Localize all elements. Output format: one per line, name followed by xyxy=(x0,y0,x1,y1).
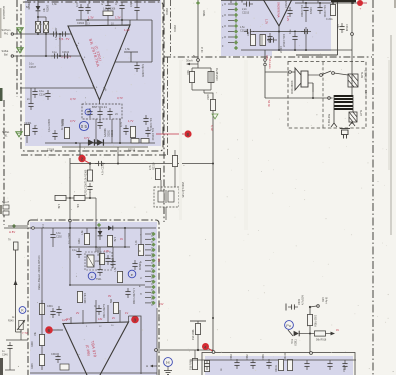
wire short drop x118 xyxy=(117,147,119,164)
svg-text:3,7V: 3,7V xyxy=(117,96,123,100)
wire pre-triangle rail y318 xyxy=(49,329,63,331)
block B junction dots rail xyxy=(319,2,321,4)
label 30mA line xyxy=(190,63,198,65)
capacitor C292 xyxy=(50,231,55,241)
svg-text:1,5k: 1,5k xyxy=(125,48,130,51)
red test point 3 xyxy=(131,316,139,324)
resistor R2320 xyxy=(330,5,335,16)
antenna stub T xyxy=(124,51,138,53)
connector arrow Si-Bal xyxy=(17,48,23,53)
svg-text:100: 100 xyxy=(247,31,250,36)
wire C2321 stub xyxy=(294,43,296,50)
filter coil core line xyxy=(165,190,167,203)
junction sub-apex b xyxy=(294,31,296,33)
capacitor C2341 xyxy=(143,115,148,125)
resistor R381 xyxy=(84,234,89,245)
wire blockC x53 low drop xyxy=(52,241,54,247)
junction dot speaker bus xyxy=(312,97,314,99)
resistor R918 xyxy=(315,331,326,336)
wire diamond feed into block C xyxy=(8,225,28,227)
svg-text:Si-Ant: Si-Ant xyxy=(325,297,328,304)
coil L941 cross xyxy=(87,255,94,267)
svg-text:1,3V: 1,3V xyxy=(88,16,94,20)
svg-text:4,7u/15V: 4,7u/15V xyxy=(302,295,305,305)
connector arrow Si-Bal B xyxy=(16,132,22,137)
junction dot rail C c xyxy=(124,227,126,229)
diode D382 horizontal xyxy=(108,226,113,231)
scan mark left edge dark blob xyxy=(0,88,3,101)
wire transistor to R918 xyxy=(300,333,315,335)
blue adjust point Pu xyxy=(285,321,294,330)
green pin node 9 xyxy=(234,46,238,50)
block C wire x113 xyxy=(112,247,114,258)
svg-text:0,1u: 0,1u xyxy=(114,0,118,5)
green pin node 6 xyxy=(234,29,238,33)
wire left branch vertical xyxy=(69,158,71,219)
wire H arrow stub xyxy=(153,365,157,367)
capacitor C2305 right xyxy=(134,62,139,72)
svg-text:C2317: C2317 xyxy=(279,46,282,54)
block C extra cap 2 xyxy=(110,258,115,268)
svg-text:R394: R394 xyxy=(31,363,34,369)
potentiometer arrowhead xyxy=(23,320,25,323)
transistor lead bar left xyxy=(288,330,293,336)
wire to transformer horizontal xyxy=(265,97,333,99)
regulator box left xyxy=(14,242,19,250)
svg-text:P. 30: P. 30 xyxy=(200,47,203,53)
junction C2321 xyxy=(294,49,296,51)
headphone jack symbol xyxy=(340,129,350,139)
wire sub-apex horizontal xyxy=(253,31,308,33)
wire H to block D xyxy=(167,366,169,370)
junction diode chain xyxy=(37,16,39,18)
svg-text:H: H xyxy=(166,360,169,365)
svg-text:0,1u C2309: 0,1u C2309 xyxy=(48,118,51,132)
svg-text:R2313: R2313 xyxy=(128,149,136,152)
svg-text:29301: 29301 xyxy=(165,8,168,15)
capacitor C2343 xyxy=(51,53,61,58)
wire cap stub 2 xyxy=(107,12,109,20)
svg-text:3,7V: 3,7V xyxy=(70,97,76,101)
internal dashed divider output box xyxy=(322,62,324,129)
triangle1 left edge pin tick 1 xyxy=(74,42,78,47)
block C wire x100 xyxy=(99,247,101,266)
wire y350 horizontal xyxy=(158,349,214,351)
IC block A shaded area xyxy=(25,0,161,146)
top edge stub 1 xyxy=(230,0,232,3)
svg-text:71820: 71820 xyxy=(294,339,297,346)
wire bottom rail block C xyxy=(30,372,157,374)
resistor R2312 xyxy=(172,156,177,167)
svg-text:R9102: R9102 xyxy=(284,352,287,360)
connector pin column dashed line xyxy=(235,1,237,49)
capacitor C346 bottom left xyxy=(7,342,12,352)
svg-text:H: H xyxy=(146,364,148,368)
wire BNT box to rail left xyxy=(95,119,97,143)
block C junction dots xyxy=(95,246,97,248)
svg-text:1k R384: 1k R384 xyxy=(97,246,100,256)
wire drop x76 to mesh xyxy=(69,228,71,285)
capacitor C2314b right xyxy=(301,29,311,34)
svg-text:BU26: BU26 xyxy=(360,72,363,79)
wire filter bottom drop xyxy=(165,207,167,220)
wire corner to pot xyxy=(16,329,22,332)
wire R986 bottom xyxy=(197,335,199,351)
ground feet transformer left xyxy=(331,123,337,127)
svg-text:TCA: TCA xyxy=(290,339,293,344)
svg-text:R2308: R2308 xyxy=(62,118,65,126)
blue adjust point 05 xyxy=(79,121,88,130)
svg-text:1,9V: 1,9V xyxy=(104,250,109,253)
capacitor C394 low xyxy=(55,353,60,363)
wire R918 to arrow xyxy=(326,333,333,335)
wire drop x96 xyxy=(95,228,97,252)
svg-text:1901: 1901 xyxy=(187,69,190,75)
wire speaker lower to bus xyxy=(312,83,314,98)
svg-text:0,1u: 0,1u xyxy=(29,63,34,66)
output section dashed box xyxy=(288,62,366,129)
svg-text:+U: +U xyxy=(357,2,360,5)
wire pot to block C xyxy=(20,330,22,340)
resistor R2316 xyxy=(250,35,255,46)
scan stripe faint 2 xyxy=(244,60,248,230)
junction dots on rail xyxy=(87,19,89,21)
svg-text:0,1u: 0,1u xyxy=(52,51,57,54)
svg-text:1,2V: 1,2V xyxy=(286,16,289,21)
scan edge line far right 2 xyxy=(388,60,390,170)
svg-text:1,5k: 1,5k xyxy=(113,237,116,242)
wire right caps rail xyxy=(295,2,357,4)
wire speaker lower terminal xyxy=(308,82,313,84)
wire block B lower rail xyxy=(241,49,352,51)
capacitor C2316 xyxy=(267,33,272,43)
green diamond on feed top xyxy=(196,1,200,5)
wire speaker lower drop xyxy=(312,83,314,92)
node circle block D top xyxy=(310,352,313,355)
potentiometer R340 xyxy=(19,320,23,329)
svg-text:C2319: C2319 xyxy=(345,24,348,32)
resistor R2311 xyxy=(130,127,135,138)
svg-text:+: + xyxy=(360,7,362,11)
capacitor C919 end bar xyxy=(285,304,287,311)
junction sub-apex xyxy=(278,31,280,33)
junction main wire into D xyxy=(212,351,215,354)
svg-text:C2301: C2301 xyxy=(24,122,32,125)
svg-text:21V: 21V xyxy=(159,303,164,306)
green diamond node left xyxy=(12,224,16,228)
junction dot rail b xyxy=(95,142,97,144)
arrow terminal right xyxy=(331,332,336,336)
resistor R919 feed xyxy=(189,72,194,83)
left margin dash-dot border upper xyxy=(16,0,18,97)
wire left margin vertical xyxy=(15,248,17,332)
capacitor C2317 on apex wire xyxy=(267,37,277,42)
svg-text:0,22: 0,22 xyxy=(364,90,367,95)
wire c2318 drop xyxy=(305,14,307,22)
svg-text:C394: C394 xyxy=(51,353,57,356)
capacitor C9103 xyxy=(304,360,309,370)
wire feed R919 stub b xyxy=(191,83,193,90)
top edge stub 5 xyxy=(107,0,109,3)
svg-text:5,5...7V: 5,5...7V xyxy=(59,37,69,41)
wire main vert junction dots xyxy=(212,317,214,319)
block B junction dot 3 xyxy=(352,2,354,4)
wire cap stub 4 xyxy=(136,14,138,20)
resistor R2367 with wiper xyxy=(43,22,48,33)
junction wire2 xyxy=(45,55,47,57)
capacitor C384 mid xyxy=(96,305,101,315)
wire feed join down xyxy=(203,90,205,93)
switch contact b xyxy=(332,72,335,75)
capacitor C919 xyxy=(288,304,298,309)
svg-text:3,9p C2305: 3,9p C2305 xyxy=(141,64,144,78)
svg-text:560: 560 xyxy=(110,298,113,303)
node circle feed top xyxy=(197,59,200,62)
capacitor C380 xyxy=(76,248,81,258)
wire speaker to switch xyxy=(308,74,319,76)
choke DR981 xyxy=(208,72,214,83)
red test point 2 tail xyxy=(85,161,90,164)
block C junction dot2 xyxy=(69,246,71,248)
wire right corner to x141 xyxy=(129,316,142,374)
block B junction dot 2 xyxy=(332,2,334,4)
svg-text:3,7V: 3,7V xyxy=(70,119,76,123)
wire feed split top xyxy=(192,67,211,69)
junction dot rail c xyxy=(119,142,121,144)
svg-text:7,7V: 7,7V xyxy=(22,331,28,335)
svg-text:c: c xyxy=(91,275,93,279)
svg-text:Si-Bal.: Si-Bal. xyxy=(2,130,10,134)
junction dot rail a xyxy=(75,142,77,144)
coil L2302 xyxy=(260,35,266,46)
junction caps column b xyxy=(59,55,61,57)
svg-text:918 R987: 918 R987 xyxy=(190,359,193,370)
diode D381 xyxy=(98,228,103,240)
top edge stub 6 xyxy=(136,0,138,4)
wire x96 down to block C xyxy=(95,198,97,228)
wire feed from top xyxy=(197,0,199,59)
junction dot xyxy=(121,19,123,21)
capacitor C2321 mid block B xyxy=(292,33,297,43)
label bottom gap H arrow xyxy=(150,365,153,368)
svg-text:Ph1: Ph1 xyxy=(4,33,9,36)
scan mark left edge small xyxy=(0,205,2,214)
resistor R380 xyxy=(77,292,82,303)
red test point a xyxy=(202,343,209,350)
BNT internal cap 1 xyxy=(87,108,92,118)
top edge stub 4 xyxy=(88,0,90,4)
block B solid border right xyxy=(337,2,339,55)
svg-text:29301: 29301 xyxy=(173,25,176,32)
box R395 low xyxy=(60,364,69,370)
resistor blockD extra xyxy=(278,360,283,371)
red terminal tail xyxy=(363,2,367,4)
svg-text:R381: R381 xyxy=(78,238,81,244)
triangle1 left edge pin tick 2 xyxy=(80,56,84,61)
hybrid module BNT 901 21 dashed box xyxy=(82,104,122,119)
resistor R391 left col xyxy=(39,304,44,315)
transistor TCA diode symbol xyxy=(294,331,300,337)
wire apex T2 down xyxy=(278,26,280,50)
wire BNT box to rail mid xyxy=(111,119,113,143)
svg-text:4,7n C2304: 4,7n C2304 xyxy=(75,0,79,7)
capacitor C2311 xyxy=(123,125,128,135)
node circle NF crossing 2 xyxy=(264,63,267,66)
capacitor C382 xyxy=(132,260,137,270)
resistor R916b on supply xyxy=(307,315,312,326)
capacitor C982 xyxy=(250,359,255,369)
pin tick row2 xyxy=(228,9,234,11)
block C extra cap 1 xyxy=(97,266,102,276)
svg-text:4,7u/15V C383: 4,7u/15V C383 xyxy=(132,288,135,305)
wire supply left vertical xyxy=(351,2,353,95)
svg-text:10u C2310: 10u C2310 xyxy=(151,128,154,141)
wire bottom rail 2 block A xyxy=(62,146,148,148)
wire right column down xyxy=(151,20,153,62)
wire rail to test point 2 xyxy=(79,143,81,155)
svg-text:2700 C2367: 2700 C2367 xyxy=(85,181,88,195)
ground feet transformer right xyxy=(349,122,355,126)
pin header dashed line block C xyxy=(151,232,153,306)
ground symbol under H xyxy=(164,371,172,375)
block B extra cap xyxy=(287,7,292,17)
svg-text:0 5: 0 5 xyxy=(81,124,88,129)
svg-text:12V: 12V xyxy=(157,258,159,263)
red test point 6 xyxy=(45,326,53,334)
red terminal top right xyxy=(357,0,363,6)
svg-text:1915 R916: 1915 R916 xyxy=(314,315,317,327)
svg-text:C2304: C2304 xyxy=(77,22,85,25)
wire arrow mid left xyxy=(14,280,18,285)
wire drop x53 cap xyxy=(52,228,54,231)
resistor R392 xyxy=(39,335,44,346)
svg-text:1,3k: 1,3k xyxy=(52,3,57,6)
wire bottom rail block A xyxy=(45,142,155,144)
junction dot NF x118 xyxy=(117,163,119,165)
svg-text:1u/35V C384: 1u/35V C384 xyxy=(102,304,105,319)
resistor R916 main vertical xyxy=(210,100,215,111)
vertical chassis dash-dot second line xyxy=(170,0,172,57)
svg-text:D+4B1/100: D+4B1/100 xyxy=(215,68,218,81)
svg-text:C2320: C2320 xyxy=(285,0,288,8)
capacitor C2302 xyxy=(50,31,60,36)
vertical chassis dash-dot right of block A xyxy=(163,0,165,222)
capacitor C981 xyxy=(204,360,209,370)
wire diode feed xyxy=(37,0,39,6)
capacitor C2308 on NF line xyxy=(95,161,105,166)
resistor R2302 with wiper xyxy=(35,22,40,33)
pin header ticks and nodes xyxy=(145,234,151,303)
ground bar above R986 xyxy=(190,320,206,322)
capacitor C2301 left low xyxy=(32,125,37,135)
block D inner components xyxy=(204,361,209,372)
svg-text:NF 30: NF 30 xyxy=(267,100,270,107)
node circle block C entry xyxy=(69,219,72,222)
svg-text:14V: 14V xyxy=(98,318,103,321)
top edge stub 2 xyxy=(241,0,243,3)
wire c2318 low stub xyxy=(305,27,307,50)
svg-text:R340: R340 xyxy=(8,321,14,323)
IC block B lower lobe xyxy=(221,51,272,56)
plug socket hatched lower xyxy=(349,112,357,122)
diode D2302 xyxy=(88,139,94,145)
svg-text:C381: C381 xyxy=(111,258,114,264)
svg-text:4,7n C2308: 4,7n C2308 xyxy=(102,162,105,175)
svg-text:H 8V: H 8V xyxy=(9,230,15,234)
svg-text:4,7k: 4,7k xyxy=(135,240,138,245)
switch lever xyxy=(322,71,331,75)
svg-text:m: m xyxy=(87,110,90,114)
wire chain to y198 xyxy=(89,192,91,198)
capacitor C2367 chain xyxy=(87,183,92,193)
resistor R2363 on y198 xyxy=(74,195,85,200)
wire into right edge xyxy=(115,61,152,63)
coil L2302 inner xyxy=(261,35,263,46)
wire NF to speaker xyxy=(265,71,295,73)
blue adjust point H xyxy=(164,358,173,367)
svg-text:0,5u: 0,5u xyxy=(289,29,292,34)
capacitor C2347 xyxy=(32,88,37,98)
port circle input 1 xyxy=(11,33,13,35)
coil L941 xyxy=(87,255,94,267)
resistor R2306 on rail xyxy=(103,11,113,16)
output transformer right lead xyxy=(352,95,354,112)
wire bottom left drop xyxy=(9,352,11,370)
svg-text:C2309: C2309 xyxy=(47,149,55,152)
svg-text:R2321: R2321 xyxy=(309,7,312,15)
green pin node 8 xyxy=(234,40,238,44)
wire stub left inner xyxy=(30,88,32,100)
svg-text:C982: C982 xyxy=(246,354,249,360)
svg-text:Dr981: Dr981 xyxy=(202,10,205,17)
svg-text:C2344: C2344 xyxy=(62,51,70,54)
green pin node 1 xyxy=(234,2,238,6)
pin tick right top xyxy=(121,20,123,26)
svg-text:4,7u: 4,7u xyxy=(120,122,123,127)
pin tick row1 xyxy=(228,3,234,5)
wire junction to R2365 xyxy=(89,164,91,171)
wire rail stub to margin xyxy=(4,227,32,229)
wire NF output down xyxy=(264,50,266,72)
fuse box Si left 2 xyxy=(3,211,9,215)
svg-text:10u C2318: 10u C2318 xyxy=(300,5,303,17)
wire cap stub 3 xyxy=(121,12,123,20)
green pin node 7 xyxy=(234,35,238,39)
antenna stub vertical xyxy=(130,52,132,62)
svg-text:3,9p: 3,9p xyxy=(129,1,133,7)
svg-text:Bal: Bal xyxy=(4,54,8,57)
wire NF line horizontal xyxy=(70,163,213,165)
svg-text:D2302: D2302 xyxy=(111,129,114,137)
block B solid border bottom right xyxy=(296,54,338,56)
node circle transformer input xyxy=(328,97,331,100)
op-amp IC395 triangle xyxy=(63,322,129,375)
svg-text:M: M xyxy=(139,269,141,271)
filter coil dashed box xyxy=(154,187,179,207)
wire apex down xyxy=(99,100,101,104)
resistor R987 below junction xyxy=(192,359,197,370)
wire feed split bottom xyxy=(192,89,211,91)
label 30mA arrow xyxy=(186,63,190,65)
junction dot C919 xyxy=(309,306,311,308)
svg-text:1,3V: 1,3V xyxy=(115,16,121,20)
green pin diamonds column xyxy=(151,232,155,305)
pin tick row4 xyxy=(228,20,234,22)
junction y198 b xyxy=(89,197,91,199)
capacitor C381 xyxy=(105,255,110,265)
diode D2303 xyxy=(97,139,103,145)
junction dot rail C b xyxy=(95,227,97,229)
